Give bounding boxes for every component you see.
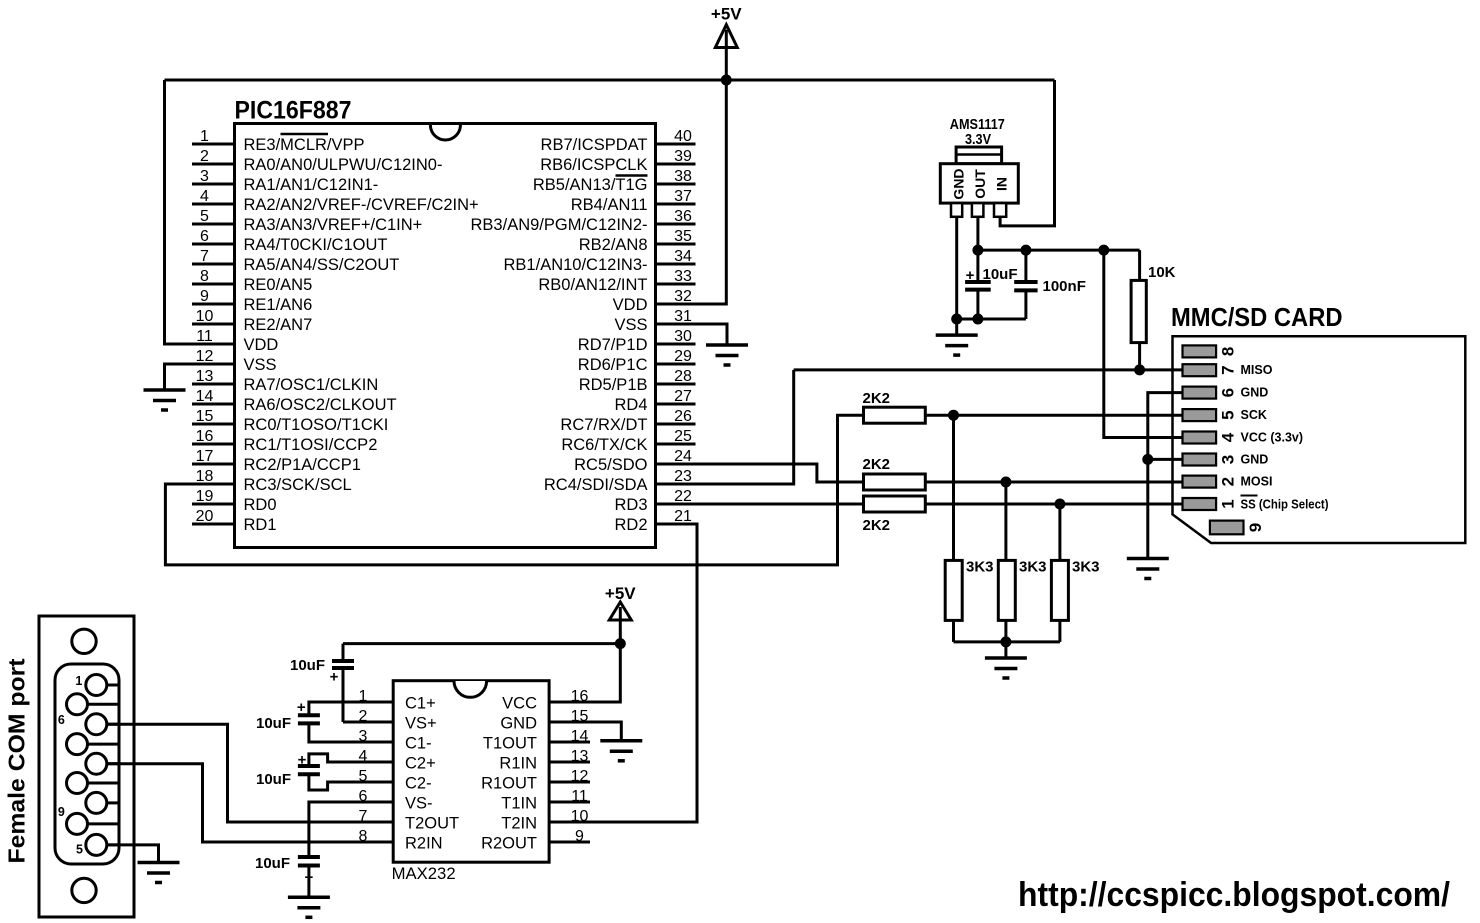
svg-text:RE1/AN6: RE1/AN6 [244, 296, 313, 314]
svg-text:5: 5 [76, 842, 83, 856]
svg-text:RA0/AN0/ULPWU/C12IN0-: RA0/AN0/ULPWU/C12IN0- [244, 156, 443, 174]
svg-text:3K3: 3K3 [966, 559, 994, 576]
svg-text:9: 9 [575, 828, 584, 845]
svg-text:T1OUT: T1OUT [483, 735, 537, 753]
svg-text:C2+: C2+ [405, 755, 436, 773]
svg-text:14: 14 [196, 388, 214, 405]
svg-text:30: 30 [674, 328, 692, 345]
svg-text:R1OUT: R1OUT [481, 775, 537, 793]
svg-text:28: 28 [674, 368, 692, 385]
svg-text:+5V: +5V [711, 5, 742, 24]
svg-text:SCK: SCK [1241, 408, 1267, 422]
svg-text:RC5/SDO: RC5/SDO [574, 456, 648, 474]
svg-text:RE3/MCLR/VPP: RE3/MCLR/VPP [244, 136, 365, 154]
svg-text:+: + [305, 869, 314, 886]
svg-text:T2IN: T2IN [501, 815, 537, 833]
svg-text:1: 1 [1219, 499, 1238, 508]
svg-text:13: 13 [196, 368, 214, 385]
svg-text:+: + [297, 699, 306, 716]
svg-text:RD1: RD1 [244, 516, 277, 534]
svg-text:MOSI: MOSI [1241, 475, 1273, 489]
svg-text:10K: 10K [1148, 264, 1176, 281]
svg-text:10uF: 10uF [983, 266, 1018, 283]
svg-text:C2-: C2- [405, 775, 432, 793]
svg-text:RA6/OSC2/CLKOUT: RA6/OSC2/CLKOUT [244, 396, 397, 414]
svg-text:RA4/T0CKI/C1OUT: RA4/T0CKI/C1OUT [244, 236, 388, 254]
svg-text:10uF: 10uF [256, 771, 291, 788]
svg-text:9: 9 [1246, 523, 1265, 532]
svg-text:+: + [966, 267, 975, 284]
svg-text:VCC: VCC [502, 695, 537, 713]
svg-text:T2OUT: T2OUT [405, 815, 459, 833]
svg-text:2K2: 2K2 [863, 390, 891, 407]
svg-text:34: 34 [674, 248, 692, 265]
svg-text:21: 21 [674, 508, 692, 525]
svg-text:GND: GND [1241, 453, 1269, 467]
svg-text:RC0/T1OSO/T1CKI: RC0/T1OSO/T1CKI [244, 416, 389, 434]
svg-text:2K2: 2K2 [863, 456, 891, 473]
svg-text:VS-: VS- [405, 795, 433, 813]
svg-text:MMC/SD CARD: MMC/SD CARD [1171, 302, 1343, 332]
svg-text:GND: GND [500, 715, 537, 733]
svg-text:4: 4 [1219, 432, 1238, 442]
svg-text:39: 39 [674, 148, 692, 165]
svg-text:RB3/AN9/PGM/C12IN2-: RB3/AN9/PGM/C12IN2- [471, 216, 648, 234]
svg-text:15: 15 [196, 408, 214, 425]
svg-text:11: 11 [196, 328, 213, 345]
svg-text:RD4: RD4 [614, 396, 647, 414]
svg-text:R2OUT: R2OUT [481, 835, 537, 853]
svg-text:5: 5 [1219, 410, 1238, 419]
svg-text:RB4/AN11: RB4/AN11 [571, 196, 648, 214]
svg-text:4: 4 [200, 188, 209, 205]
svg-text:2K2: 2K2 [863, 517, 891, 534]
svg-text:3K3: 3K3 [1072, 559, 1100, 576]
svg-text:6: 6 [200, 228, 209, 245]
svg-text:35: 35 [674, 228, 692, 245]
svg-text:RA2/AN2/VREF-/CVREF/C2IN+: RA2/AN2/VREF-/CVREF/C2IN+ [244, 196, 479, 214]
svg-text:+: + [298, 752, 307, 769]
svg-text:SS (Chip Select): SS (Chip Select) [1241, 498, 1329, 512]
svg-text:9: 9 [58, 805, 65, 819]
svg-text:C1-: C1- [405, 735, 432, 753]
svg-text:RC7/RX/DT: RC7/RX/DT [560, 416, 647, 434]
svg-text:6: 6 [58, 713, 65, 727]
svg-text:VS+: VS+ [405, 715, 437, 733]
svg-text:38: 38 [674, 168, 692, 185]
svg-text:27: 27 [674, 388, 692, 405]
svg-text:VDD: VDD [244, 336, 279, 354]
svg-text:5: 5 [200, 208, 209, 225]
svg-text:8: 8 [200, 268, 209, 285]
svg-text:RB5/AN13/T1G: RB5/AN13/T1G [533, 176, 648, 194]
svg-text:22: 22 [674, 488, 692, 505]
svg-text:VDD: VDD [613, 296, 648, 314]
svg-text:http://ccspicc.blogspot.com/: http://ccspicc.blogspot.com/ [1018, 876, 1451, 914]
svg-text:7: 7 [1219, 365, 1238, 374]
svg-text:26: 26 [674, 408, 692, 425]
svg-text:RD2: RD2 [614, 516, 647, 534]
svg-text:RB0/AN12/INT: RB0/AN12/INT [538, 276, 647, 294]
svg-text:10uF: 10uF [255, 855, 290, 872]
svg-text:RD6/P1C: RD6/P1C [578, 356, 648, 374]
svg-text:RA5/AN4/SS/C2OUT: RA5/AN4/SS/C2OUT [244, 256, 400, 274]
svg-text:RE0/AN5: RE0/AN5 [244, 276, 313, 294]
svg-text:RC6/TX/CK: RC6/TX/CK [561, 436, 647, 454]
svg-text:32: 32 [674, 288, 692, 305]
svg-text:RB6/ICSPCLK: RB6/ICSPCLK [540, 156, 647, 174]
svg-text:8: 8 [1219, 347, 1238, 356]
svg-text:7: 7 [359, 808, 368, 825]
svg-text:3: 3 [1219, 455, 1238, 464]
svg-text:10uF: 10uF [256, 715, 291, 732]
svg-text:3: 3 [200, 168, 209, 185]
svg-text:RC4/SDI/SDA: RC4/SDI/SDA [544, 476, 648, 494]
svg-text:19: 19 [196, 488, 214, 505]
svg-text:7: 7 [200, 248, 209, 265]
svg-text:RB1/AN10/C12IN3-: RB1/AN10/C12IN3- [504, 256, 648, 274]
svg-text:25: 25 [674, 428, 692, 445]
svg-text:RB2/AN8: RB2/AN8 [579, 236, 648, 254]
svg-text:C1+: C1+ [405, 695, 436, 713]
svg-text:36: 36 [674, 208, 692, 225]
svg-text:18: 18 [196, 468, 214, 485]
svg-text:RD3: RD3 [614, 496, 647, 514]
svg-text:24: 24 [674, 448, 692, 465]
svg-text:2: 2 [1219, 477, 1238, 486]
svg-text:VSS: VSS [614, 316, 647, 334]
svg-text:6: 6 [1219, 388, 1238, 397]
svg-text:1: 1 [75, 674, 82, 688]
svg-text:1: 1 [200, 128, 209, 145]
svg-text:12: 12 [571, 768, 589, 785]
svg-text:RD0: RD0 [244, 496, 277, 514]
svg-text:GND: GND [1241, 386, 1269, 400]
svg-text:PIC16F887: PIC16F887 [235, 97, 352, 125]
svg-text:31: 31 [674, 308, 692, 325]
svg-text:RD5/P1B: RD5/P1B [579, 376, 648, 394]
svg-text:40: 40 [674, 128, 692, 145]
svg-text:RA7/OSC1/CLKIN: RA7/OSC1/CLKIN [244, 376, 379, 394]
svg-text:3.3V: 3.3V [965, 131, 991, 148]
svg-text:10: 10 [571, 808, 589, 825]
svg-text:RE2/AN7: RE2/AN7 [244, 316, 313, 334]
svg-text:OUT: OUT [972, 169, 988, 199]
svg-text:37: 37 [674, 188, 692, 205]
svg-text:2: 2 [200, 148, 209, 165]
svg-text:9: 9 [200, 288, 209, 305]
svg-text:10uF: 10uF [290, 657, 325, 674]
svg-text:R2IN: R2IN [405, 835, 443, 853]
svg-text:33: 33 [674, 268, 692, 285]
svg-text:17: 17 [196, 448, 214, 465]
svg-text:RB7/ICSPDAT: RB7/ICSPDAT [541, 136, 648, 154]
svg-text:T1IN: T1IN [501, 795, 537, 813]
svg-text:RA1/AN1/C12IN1-: RA1/AN1/C12IN1- [244, 176, 379, 194]
svg-text:VCC (3.3v): VCC (3.3v) [1241, 431, 1304, 445]
svg-text:RC1/T1OSI/CCP2: RC1/T1OSI/CCP2 [244, 436, 378, 454]
svg-text:MAX232: MAX232 [392, 864, 456, 883]
svg-text:RD7/P1D: RD7/P1D [578, 336, 648, 354]
svg-text:GND: GND [951, 168, 967, 199]
svg-text:20: 20 [196, 508, 214, 525]
svg-text:3K3: 3K3 [1019, 559, 1047, 576]
svg-text:16: 16 [196, 428, 214, 445]
svg-text:23: 23 [674, 468, 692, 485]
svg-text:11: 11 [571, 788, 588, 805]
svg-text:+: + [330, 669, 339, 686]
svg-text:14: 14 [571, 728, 589, 745]
svg-text:Female COM port: Female COM port [4, 658, 30, 863]
svg-text:VSS: VSS [244, 356, 277, 374]
svg-text:RA3/AN3/VREF+/C1IN+: RA3/AN3/VREF+/C1IN+ [244, 216, 423, 234]
svg-text:10: 10 [196, 308, 214, 325]
svg-text:R1IN: R1IN [499, 755, 537, 773]
svg-text:12: 12 [196, 348, 214, 365]
svg-text:RC2/P1A/CCP1: RC2/P1A/CCP1 [244, 456, 361, 474]
svg-text:8: 8 [359, 828, 368, 845]
svg-text:RC3/SCK/SCL: RC3/SCK/SCL [244, 476, 352, 494]
svg-text:29: 29 [674, 348, 692, 365]
svg-text:100nF: 100nF [1043, 278, 1086, 295]
svg-text:IN: IN [994, 177, 1010, 191]
svg-text:13: 13 [571, 748, 589, 765]
svg-text:MISO: MISO [1241, 363, 1273, 377]
